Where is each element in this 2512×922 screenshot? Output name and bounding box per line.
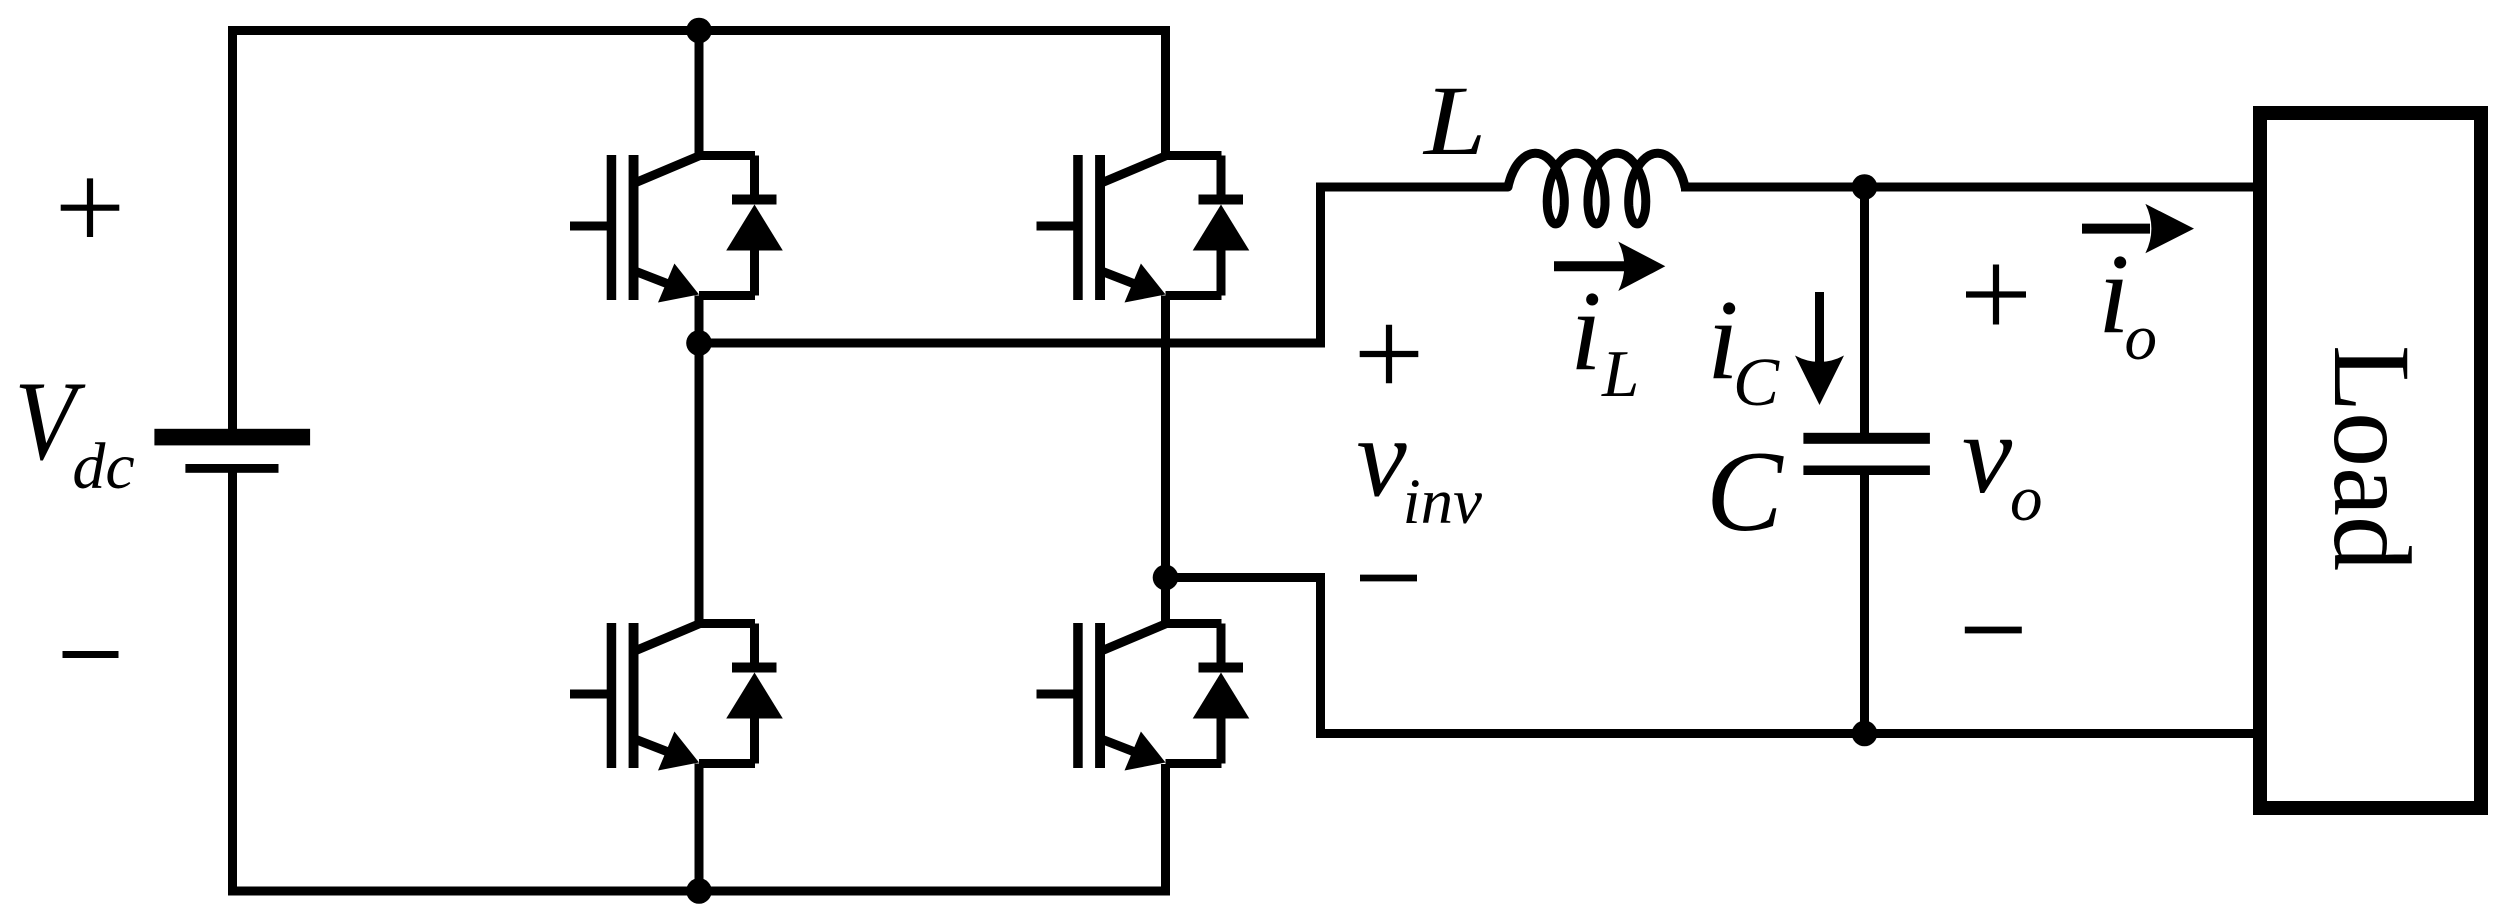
label + (Vdc polarity)	[61, 205, 120, 211]
node top rail junction	[686, 18, 712, 44]
wire dc bus upper loop (left branch, top rail, right leg collector lead Q3)	[233, 31, 1166, 430]
node B (right leg midpoint)	[1153, 565, 1179, 591]
current arrow iC head	[1795, 356, 1844, 406]
battery Vdc positive plate	[154, 429, 310, 446]
wire node B to filter return (-)	[1166, 578, 2258, 734]
wire left leg collector lead Q1	[695, 26, 704, 156]
load box	[2260, 113, 2481, 808]
capacitor C bottom plate	[1803, 466, 1930, 476]
label + (vo polarity)	[1966, 291, 2026, 297]
label - (vinv polarity)	[1360, 575, 1417, 582]
battery Vdc negative plate	[185, 464, 278, 473]
transistor Q2	[570, 623, 755, 771]
diode D4	[1193, 624, 1250, 764]
wire dc bus lower loop (left branch, bottom rail, Q4 emitter lead)	[233, 472, 1166, 891]
capacitor C top plate	[1803, 433, 1930, 444]
node A (left leg midpoint)	[686, 330, 712, 356]
node capacitor top	[1852, 174, 1878, 200]
svg-text:o: o	[2125, 302, 2158, 374]
current arrow io head	[2145, 204, 2194, 253]
transistor Q1	[570, 155, 755, 303]
current arrow io shaft	[2082, 224, 2150, 234]
node capacitor bottom	[1852, 721, 1878, 747]
svg-text:v: v	[1357, 396, 1408, 521]
diode D1	[726, 156, 783, 296]
wire node A to filter input (+)	[699, 187, 1508, 343]
label - (Vdc polarity)	[63, 651, 119, 658]
transistor Q3	[1037, 155, 1222, 303]
wire node A to Q2 collector	[695, 343, 704, 624]
svg-text:C: C	[1733, 344, 1780, 420]
current arrow iL head	[1618, 242, 1665, 291]
svg-text:dc: dc	[72, 430, 134, 503]
current arrow iL shaft	[1554, 261, 1626, 271]
diode D3	[1193, 156, 1250, 296]
svg-text:Load: Load	[2311, 345, 2433, 571]
label - (vo polarity)	[1965, 627, 2022, 634]
label + (vinv polarity)	[1360, 351, 1419, 357]
wire inductor to load (top)	[1681, 183, 2257, 192]
svg-text:C: C	[1706, 428, 1784, 555]
wire Q3 emitter to Q4 collector	[1161, 296, 1170, 624]
wire Q1 emitter to node A	[695, 296, 704, 344]
svg-text:v: v	[1962, 392, 2013, 517]
inductor L	[1508, 153, 1685, 224]
svg-text:i: i	[1570, 267, 1602, 394]
svg-text:L: L	[1422, 65, 1486, 176]
svg-text:L: L	[1601, 337, 1639, 411]
wire capacitor top lead	[1860, 187, 1869, 433]
diode D2	[726, 624, 783, 764]
svg-text:o: o	[2010, 463, 2043, 535]
transistor Q4	[1037, 623, 1222, 771]
wire Q2 emitter to bottom rail	[695, 764, 704, 892]
current arrow iC shaft	[1815, 292, 1824, 362]
node bottom rail junction	[686, 878, 712, 904]
svg-text:inv: inv	[1403, 466, 1483, 538]
wire capacitor bottom lead	[1860, 474, 1869, 734]
